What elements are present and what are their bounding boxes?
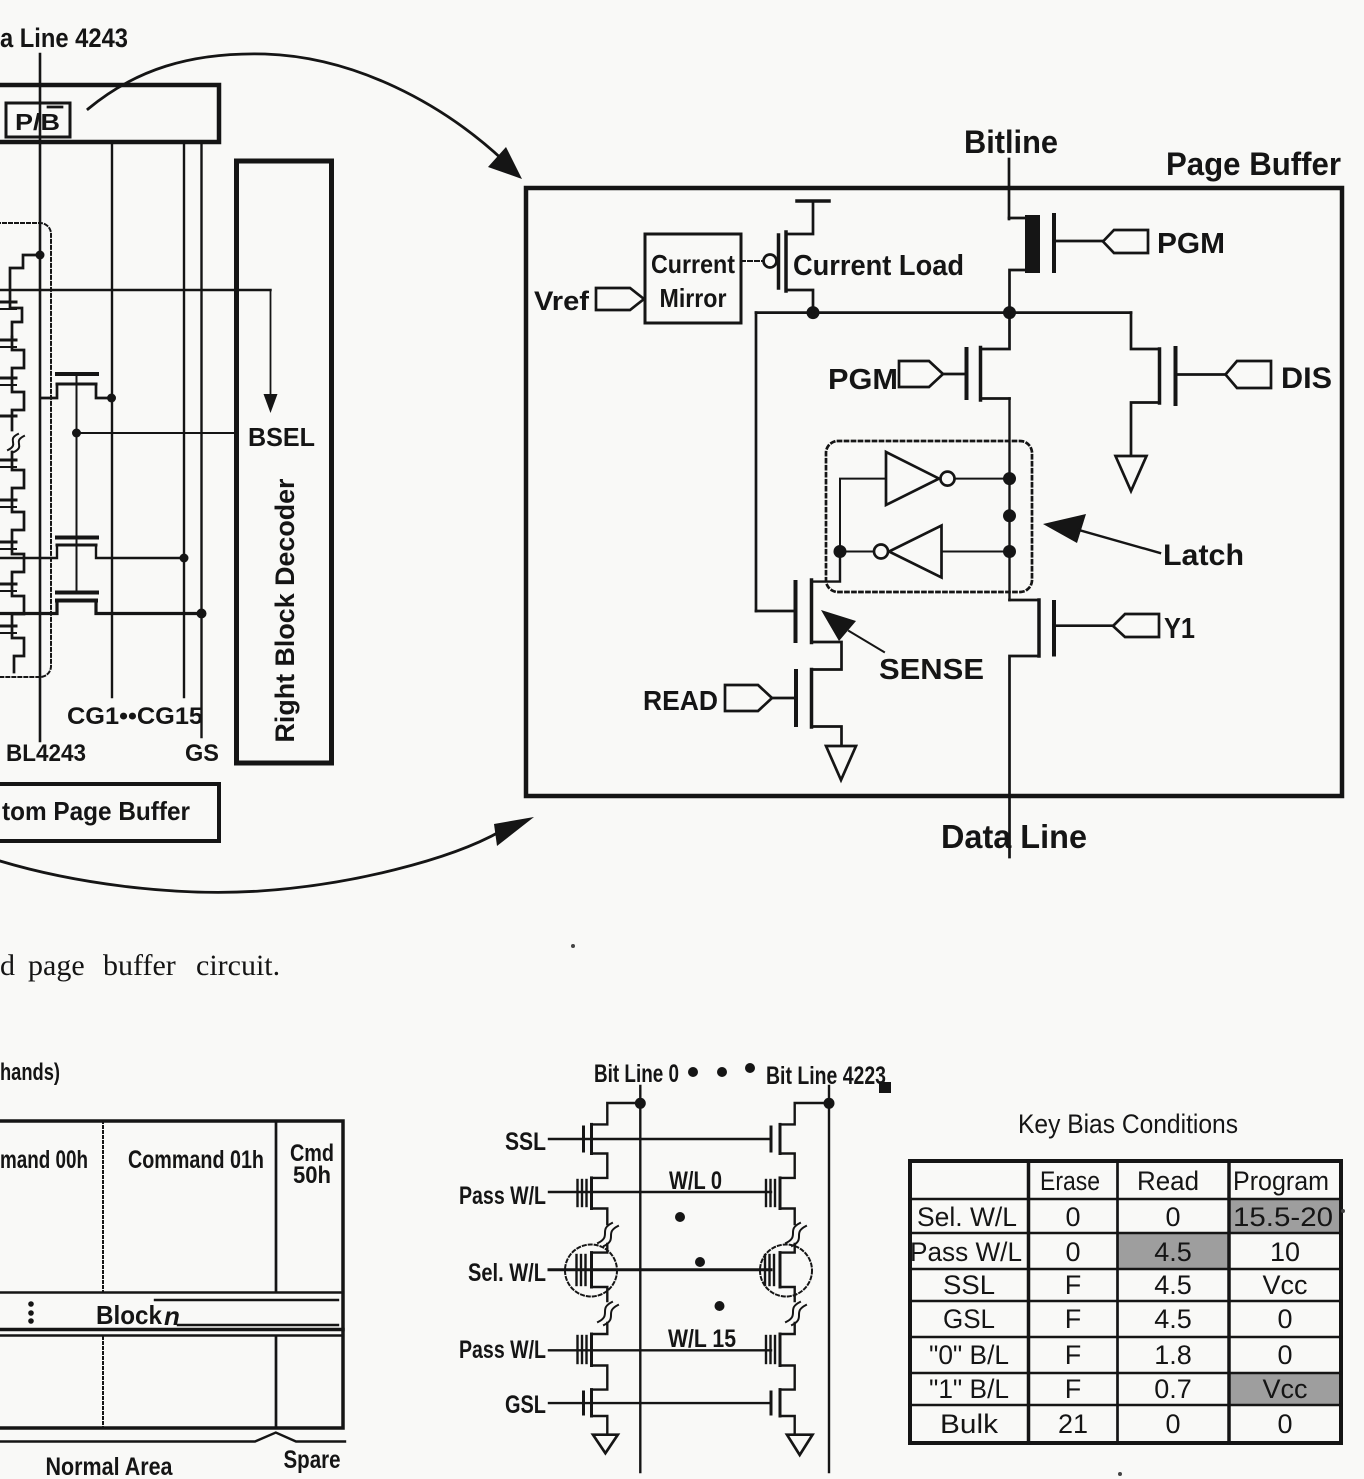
svg-text:Latch: Latch bbox=[1163, 539, 1244, 572]
svg-text:READ: READ bbox=[643, 685, 718, 716]
svg-text:CG1••CG15: CG1••CG15 bbox=[67, 703, 203, 730]
svg-text:Bit Line 0: Bit Line 0 bbox=[594, 1060, 679, 1088]
wire bit line 0 bbox=[639, 1086, 641, 1472]
svg-text:Program: Program bbox=[1233, 1166, 1329, 1196]
node SENSE label arrow bbox=[821, 610, 856, 641]
NAND cell string (cut off) bbox=[0, 302, 24, 672]
transistor DIS NMOS bbox=[1131, 313, 1160, 349]
wire CG1 vertical bbox=[111, 145, 113, 697]
svg-text:n: n bbox=[164, 1301, 180, 1331]
wire BSEL gate line bbox=[76, 374, 78, 592]
svg-text:Current Load: Current Load bbox=[793, 250, 964, 282]
wire W/L 15 line bbox=[549, 1349, 771, 1351]
svg-text:15.5-20: 15.5-20 bbox=[1233, 1202, 1333, 1232]
svg-text:4.5: 4.5 bbox=[1154, 1237, 1192, 1267]
wire SSL line bbox=[549, 1138, 771, 1140]
svg-text:W/L 0: W/L 0 bbox=[669, 1167, 722, 1195]
svg-text:Read: Read bbox=[1137, 1166, 1199, 1196]
svg-text:"1" B/L: "1" B/L bbox=[929, 1374, 1009, 1404]
transistor string left (pass W/L15) bbox=[592, 1323, 608, 1334]
svg-text:Current: Current bbox=[651, 249, 735, 279]
transistor string left (pass W/L0) bbox=[592, 1154, 608, 1178]
wire break squiggle left upper bbox=[592, 1209, 608, 1225]
ground right string bbox=[780, 1416, 795, 1435]
transistor string right (sel W/L) bbox=[780, 1244, 795, 1253]
svg-text:F: F bbox=[1065, 1304, 1082, 1334]
svg-text:Sel. W/L: Sel. W/L bbox=[917, 1202, 1017, 1232]
table header row bbox=[910, 1166, 1333, 1439]
op-amp inverter U2 bbox=[889, 526, 942, 578]
node ellipsis dots bbox=[28, 1301, 34, 1307]
svg-text:Page Buffer: Page Buffer bbox=[1166, 146, 1341, 182]
svg-text:4.5: 4.5 bbox=[1154, 1304, 1192, 1334]
wire data line BL4243 vertical bbox=[39, 54, 42, 741]
block bias table shaded cells bbox=[1229, 1199, 1341, 1233]
svg-text:Pass W/L: Pass W/L bbox=[910, 1237, 1022, 1267]
svg-text:GSL: GSL bbox=[505, 1391, 546, 1419]
block latch dotted box bbox=[826, 441, 1032, 592]
block Page Buffer box bbox=[526, 188, 1342, 796]
svg-text:Command 01h: Command 01h bbox=[128, 1146, 264, 1174]
wire latch feedback bbox=[840, 479, 886, 552]
wire break squiggle left lower bbox=[592, 1287, 608, 1301]
svg-text:d: d bbox=[0, 949, 15, 982]
svg-text:"0" B/L: "0" B/L bbox=[929, 1340, 1009, 1370]
svg-text:Data Line: Data Line bbox=[941, 818, 1087, 855]
wire GS vertical bbox=[200, 145, 202, 737]
wire data line bbox=[1010, 656, 1040, 857]
svg-text:Normal Area: Normal Area bbox=[46, 1453, 174, 1479]
wire break squiggle bbox=[8, 434, 24, 452]
wire latch rail bbox=[1008, 399, 1010, 601]
transistor READ bbox=[810, 670, 814, 728]
svg-text:0: 0 bbox=[1165, 1202, 1180, 1232]
transistor Y1 bbox=[1010, 599, 1040, 602]
wire curved arrow to page buffer detail (top) bbox=[88, 54, 504, 161]
block command map box bbox=[0, 1121, 343, 1428]
transistor program cell (floating gate) bbox=[1009, 217, 1025, 220]
svg-text:page: page bbox=[28, 949, 85, 982]
wire break squiggle right upper bbox=[780, 1209, 795, 1225]
svg-text:DIS: DIS bbox=[1281, 362, 1332, 395]
ground (READ) bbox=[826, 746, 856, 780]
svg-text:Pass W/L: Pass W/L bbox=[459, 1336, 546, 1364]
ground left string bbox=[592, 1416, 608, 1435]
svg-text:Bitline: Bitline bbox=[964, 124, 1058, 160]
svg-text:0: 0 bbox=[1277, 1304, 1292, 1334]
svg-text:4.5: 4.5 bbox=[1154, 1270, 1192, 1300]
wire break squiggle right lower bbox=[780, 1287, 795, 1301]
page buffer cell P/B box bbox=[6, 103, 70, 137]
transistor pass T3 bbox=[0, 593, 202, 614]
svg-text:Key Bias Conditions: Key Bias Conditions bbox=[1018, 1109, 1238, 1139]
svg-text:W/L 15: W/L 15 bbox=[668, 1325, 736, 1353]
svg-text:10: 10 bbox=[1270, 1237, 1300, 1267]
svg-text:F: F bbox=[1065, 1374, 1082, 1404]
svg-text:0: 0 bbox=[1065, 1237, 1080, 1267]
wire wordline to BSEL arrow bbox=[0, 289, 271, 291]
block n row band bbox=[0, 1291, 343, 1294]
node Latch label arrow bbox=[1043, 514, 1086, 543]
svg-text:21: 21 bbox=[1058, 1409, 1088, 1439]
transistor string left (GSL) bbox=[592, 1366, 608, 1390]
svg-text:mand 00h: mand 00h bbox=[0, 1146, 88, 1174]
op-amp inverter U1 bbox=[886, 452, 939, 505]
transistor current load PMOS bbox=[741, 260, 763, 262]
transistor string right (GSL) bbox=[780, 1366, 795, 1390]
svg-text:Sel. W/L: Sel. W/L bbox=[468, 1259, 546, 1287]
block top page buffer (P/B row) box bbox=[0, 85, 219, 142]
svg-text:GS: GS bbox=[185, 740, 219, 767]
node ellipsis dots (middle) bbox=[675, 1212, 685, 1222]
svg-text:F: F bbox=[1065, 1270, 1082, 1300]
wire curved arrow to page buffer detail (bottom) bbox=[0, 831, 501, 892]
svg-text:BSEL: BSEL bbox=[248, 422, 315, 452]
transistor block-select T1 bbox=[42, 374, 112, 398]
svg-text:Vref: Vref bbox=[534, 286, 590, 316]
svg-text:Bit Line 4223: Bit Line 4223 bbox=[766, 1062, 886, 1090]
wire bit line 4223 bbox=[828, 1086, 830, 1472]
scan artifact marks bbox=[879, 1082, 891, 1093]
svg-text:buffer: buffer bbox=[103, 949, 176, 982]
wire sense node bbox=[756, 311, 1131, 314]
block current mirror bbox=[645, 234, 741, 323]
svg-text:Vcc: Vcc bbox=[1262, 1374, 1307, 1404]
svg-text:PGM: PGM bbox=[1157, 228, 1225, 260]
wire Sel W/L line bbox=[549, 1268, 771, 1271]
transistor SENSE bbox=[756, 610, 796, 613]
block bottom page buffer bbox=[0, 784, 219, 841]
svg-text:a Line 4243: a Line 4243 bbox=[0, 23, 128, 53]
ground (DIS) bbox=[1116, 456, 1147, 491]
wire dashed column divider bbox=[102, 1121, 104, 1292]
wire GSL line bbox=[549, 1402, 771, 1404]
svg-text:SSL: SSL bbox=[505, 1128, 546, 1156]
wire spare column divider bbox=[275, 1121, 278, 1292]
svg-text:50h: 50h bbox=[293, 1162, 331, 1189]
svg-text:P/B: P/B bbox=[15, 109, 60, 135]
node area brace bbox=[0, 1433, 345, 1442]
svg-text:0: 0 bbox=[1277, 1409, 1292, 1439]
svg-text:SSL: SSL bbox=[943, 1270, 995, 1300]
svg-text:F: F bbox=[1065, 1340, 1082, 1370]
transistor string left (sel W/L) bbox=[592, 1244, 608, 1253]
svg-text:0: 0 bbox=[1277, 1340, 1292, 1370]
svg-text:Mirror: Mirror bbox=[660, 283, 727, 313]
block bias table grid bbox=[910, 1161, 1341, 1443]
svg-text:0: 0 bbox=[1065, 1202, 1080, 1232]
wire left rail bbox=[755, 313, 758, 611]
svg-text:Block: Block bbox=[96, 1300, 162, 1330]
transistor string right (pass W/L15) bbox=[780, 1323, 795, 1334]
wire CG15 vertical bbox=[183, 145, 185, 697]
wire W/L 0 line bbox=[549, 1191, 771, 1193]
svg-text:0.7: 0.7 bbox=[1154, 1374, 1192, 1404]
svg-text:Right Block Decoder: Right Block Decoder bbox=[270, 478, 300, 742]
svg-text:BL4243: BL4243 bbox=[6, 740, 86, 767]
svg-text:Bulk: Bulk bbox=[940, 1409, 999, 1439]
block right block decoder bbox=[237, 161, 332, 763]
transistor string left (SSL) bbox=[592, 1103, 641, 1124]
wire bitline bbox=[1008, 159, 1011, 219]
svg-text:Pass W/L: Pass W/L bbox=[459, 1182, 546, 1210]
transistor string right (SSL) bbox=[780, 1103, 829, 1124]
svg-text:Spare: Spare bbox=[284, 1446, 341, 1474]
transistor pass T2 bbox=[0, 538, 184, 559]
node bitline tap dot bbox=[36, 251, 45, 260]
wire string to bitline bbox=[10, 255, 40, 337]
svg-text:Erase: Erase bbox=[1040, 1166, 1100, 1196]
svg-text:SENSE: SENSE bbox=[879, 654, 984, 686]
svg-text:GSL: GSL bbox=[943, 1304, 995, 1334]
svg-text:0: 0 bbox=[1165, 1409, 1180, 1439]
transistor string right (pass W/L0) bbox=[780, 1154, 795, 1178]
svg-text:1.8: 1.8 bbox=[1154, 1340, 1192, 1370]
node latch dots bbox=[834, 545, 847, 558]
svg-text:tom Page Buffer: tom Page Buffer bbox=[2, 796, 190, 826]
NAND block dotted outline bbox=[0, 223, 51, 677]
pin PGM (top) bbox=[1054, 240, 1104, 243]
svg-text:PGM: PGM bbox=[828, 364, 898, 396]
svg-text:Y1: Y1 bbox=[1164, 613, 1195, 645]
svg-text:hands): hands) bbox=[0, 1059, 60, 1086]
svg-text:circuit.: circuit. bbox=[196, 949, 280, 982]
svg-text:Vcc: Vcc bbox=[1262, 1270, 1307, 1300]
